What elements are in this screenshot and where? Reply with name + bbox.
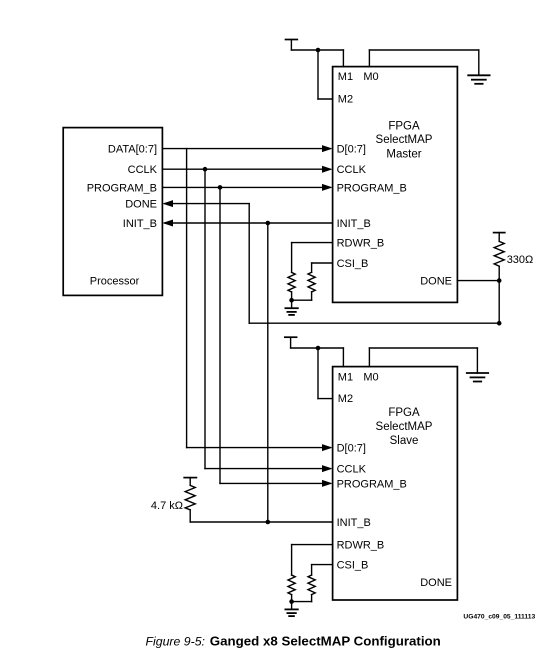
wire CCLK: processor to master CCLK [162, 168, 330, 170]
power bar VCC at slave M1 [285, 336, 297, 338]
FPGA SelectMAP Master block [333, 67, 458, 303]
svg-text:INIT_B: INIT_B [337, 517, 371, 529]
svg-text:CCLK: CCLK [337, 464, 367, 476]
wire DONE: bottom horizontal bus [249, 322, 499, 324]
processor block [63, 128, 162, 296]
svg-text:M1: M1 [338, 71, 353, 83]
junction dot PROGRAM_B branch [218, 185, 223, 190]
wire M2 branch vertical (slave) [317, 348, 319, 399]
wire M0 ground stem (master) [478, 50, 480, 75]
wire DONE: horizontal from processor [165, 203, 249, 205]
svg-text:M2: M2 [338, 94, 353, 106]
junction dot DONE bus corner [497, 321, 502, 326]
wire M0 pin vertical (slave) [368, 348, 370, 367]
svg-text:CCLK: CCLK [128, 164, 158, 176]
svg-text:DONE: DONE [420, 577, 452, 589]
wire M0 to ground (master) [369, 49, 478, 51]
wire INIT_B: master to processor [165, 222, 333, 224]
wire RDWR_B pulldown horizontal (master) [292, 242, 333, 244]
svg-text:FPGA: FPGA [388, 407, 420, 419]
wire M0 to ground (slave) [369, 347, 477, 349]
wire CCLK vertical drop to slave [204, 169, 206, 468]
wire ground stem pulldowns (slave) [291, 602, 293, 610]
wire ground stem pulldowns (master) [291, 300, 293, 308]
wire DATA bus: horizontal into slave D[0:7] [187, 447, 330, 449]
ground symbol pulldowns (slave) [285, 609, 297, 616]
wire master DONE pin to node [457, 280, 499, 282]
resistor pull-down RDWR_B (slave) [288, 545, 295, 602]
wire M0 ground stem (slave) [476, 348, 478, 373]
svg-text:PROGRAM_B: PROGRAM_B [337, 478, 407, 490]
power bar VCC above 330 ohm resistor [494, 232, 505, 234]
svg-text:4.7 kΩ: 4.7 kΩ [151, 500, 183, 512]
wire PROGRAM_B vertical drop to slave [219, 187, 221, 483]
svg-text:D[0:7]: D[0:7] [337, 443, 366, 455]
figure caption [146, 634, 441, 649]
svg-text:PROGRAM_B: PROGRAM_B [337, 182, 407, 194]
arrowhead into master CCLK [322, 166, 333, 173]
svg-text:CSI_B: CSI_B [337, 258, 369, 270]
FPGA SelectMAP Slave block [333, 367, 458, 600]
wire CSI_B pulldown horizontal (master) [312, 262, 333, 264]
resistor pull-down RDWR_B (master) [288, 243, 295, 301]
resistor 330 ohm pull-up (DONE) [494, 233, 504, 281]
wire INIT_B slave horizontal [190, 521, 332, 523]
svg-text:Master: Master [386, 149, 421, 161]
resistor pull-down CSI_B (master) [308, 263, 315, 300]
junction dot M1/M2 (slave) [316, 346, 321, 351]
wire VCC to M1 (master) [291, 49, 343, 51]
wire PROGRAM_B horizontal into slave [220, 482, 330, 484]
wire DATA bus: processor DATA[0:7] to master D[0:7] [162, 148, 330, 150]
wire CSI_B pulldown horizontal (slave) [312, 564, 333, 566]
arrowhead into slave CCLK [322, 465, 333, 472]
wire M1 pin vertical (master) [342, 50, 344, 67]
svg-text:M0: M0 [363, 371, 378, 383]
junction dot pulldown ground (slave) [289, 599, 294, 604]
svg-text:Slave: Slave [390, 435, 419, 447]
arrowhead into processor DONE [162, 200, 173, 207]
ground symbol pulldowns (master) [285, 308, 297, 315]
wire VCC to M1 (slave) [291, 347, 344, 349]
arrowhead into slave D[0:7] [322, 444, 333, 451]
wire pulldown bottom link (slave) [292, 601, 312, 603]
svg-text:CCLK: CCLK [337, 164, 367, 176]
arrowhead into master PROGRAM_B [322, 184, 333, 191]
junction dot INIT_B slave node [266, 520, 271, 525]
svg-text:RDWR_B: RDWR_B [337, 238, 385, 250]
svg-text:RDWR_B: RDWR_B [337, 540, 385, 552]
wire VCC stem (slave) [290, 337, 292, 348]
svg-text:Processor: Processor [90, 276, 140, 288]
junction dot INIT_B branch [266, 221, 271, 226]
wire M2 pin horizontal (master) [318, 98, 333, 100]
wire DONE: vertical drop [248, 204, 250, 324]
svg-text:PROGRAM_B: PROGRAM_B [87, 182, 157, 194]
svg-text:M1: M1 [338, 371, 353, 383]
wire pulldown bottom link (master) [292, 299, 312, 301]
svg-text:INIT_B: INIT_B [337, 218, 371, 230]
ground symbol M0 (slave) [467, 373, 488, 382]
junction dot pulldown ground (master) [289, 298, 294, 303]
wire DATA bus vertical drop to slave [186, 149, 188, 448]
svg-text:SelectMAP: SelectMAP [376, 134, 433, 146]
svg-text:CSI_B: CSI_B [337, 560, 369, 572]
svg-text:UG470_c09_05_111113: UG470_c09_05_111113 [463, 613, 535, 620]
svg-text:M0: M0 [363, 71, 378, 83]
svg-text:DATA[0:7]: DATA[0:7] [108, 144, 157, 156]
resistor pull-down CSI_B (slave) [308, 565, 315, 602]
junction dot master DONE node [497, 278, 502, 283]
junction dot M1/M2 (master) [316, 48, 321, 53]
wire M2 pin horizontal (slave) [318, 398, 333, 400]
resistor 4.7k ohm pull-up (slave INIT_B) [185, 478, 195, 522]
svg-text:Figure 9-5:: Figure 9-5: [146, 635, 205, 649]
svg-text:DONE: DONE [420, 276, 452, 288]
wire INIT_B vertical drop to slave [267, 223, 269, 522]
svg-text:DONE: DONE [125, 199, 157, 211]
power bar VCC above 4.7k resistor [184, 477, 196, 479]
wire RDWR_B pulldown horizontal (slave) [292, 544, 333, 546]
svg-text:330Ω: 330Ω [507, 254, 534, 266]
wire VCC stem (master) [290, 40, 292, 51]
arrowhead into slave PROGRAM_B [322, 480, 333, 487]
power bar VCC at master M1 [286, 39, 298, 41]
wire M2 branch vertical (master) [317, 50, 319, 99]
ground symbol M0 (master) [468, 75, 489, 84]
arrowhead into master D[0:7] [322, 145, 333, 152]
svg-text:INIT_B: INIT_B [123, 218, 157, 230]
wire DONE: vertical up to master DONE [498, 281, 500, 324]
wire M1 pin vertical (slave) [342, 348, 344, 367]
FPGA Slave block title [376, 407, 433, 447]
arrowhead into processor INIT_B [162, 220, 173, 227]
wire CCLK horizontal into slave [205, 468, 330, 470]
svg-text:Ganged x8 SelectMAP Configurat: Ganged x8 SelectMAP Configuration [210, 634, 441, 649]
svg-text:SelectMAP: SelectMAP [376, 421, 433, 433]
svg-text:D[0:7]: D[0:7] [337, 144, 366, 156]
svg-text:FPGA: FPGA [388, 120, 420, 132]
svg-text:M2: M2 [338, 393, 353, 405]
FPGA Master block title [376, 120, 433, 160]
junction dot CCLK branch [203, 167, 208, 172]
wire PROGRAM_B: processor to master [162, 186, 330, 188]
wire M0 pin vertical (master) [368, 50, 370, 67]
